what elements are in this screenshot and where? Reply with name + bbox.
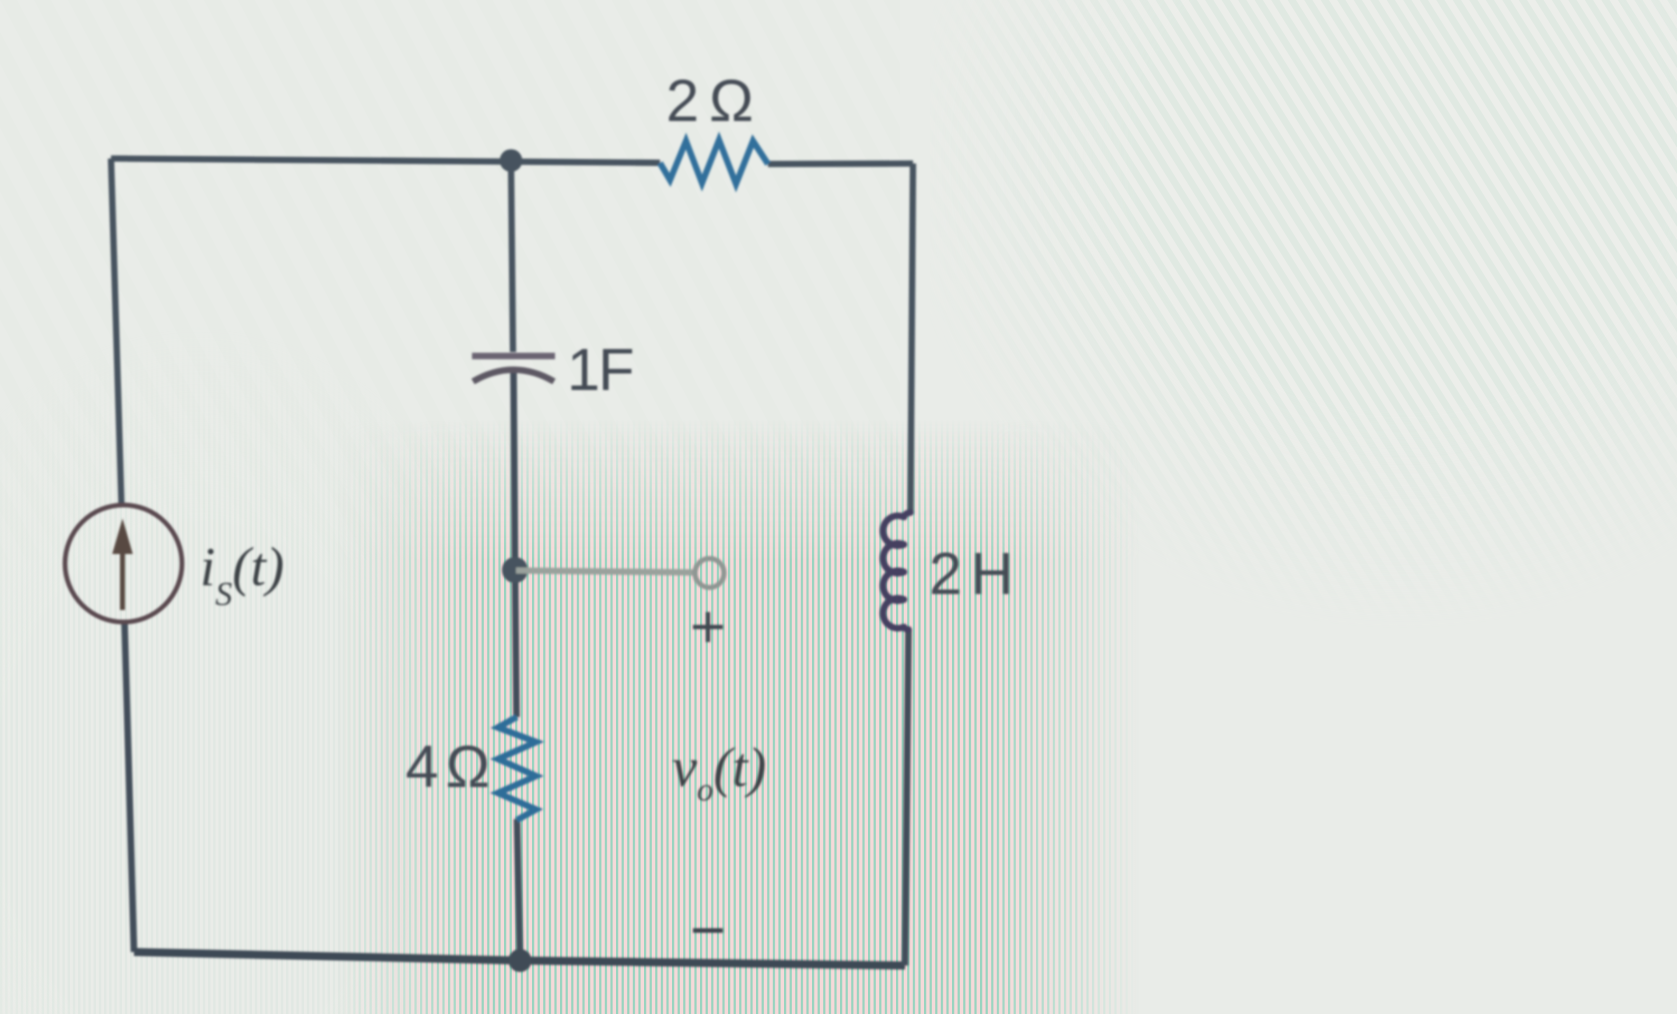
wire right xyxy=(911,164,914,515)
wire bottom xyxy=(134,952,905,966)
plus sign xyxy=(693,612,723,642)
svg-text:2H: 2H xyxy=(929,540,1014,607)
node top xyxy=(500,149,523,172)
wire middle center xyxy=(514,368,517,717)
wire right lower xyxy=(905,629,909,966)
capacitor C 1F top plate xyxy=(472,353,555,360)
wire middle lower xyxy=(517,819,520,961)
terminal vo xyxy=(695,559,724,588)
node middle xyxy=(502,557,528,583)
current source arrow xyxy=(120,550,125,610)
resistor R 4ohm xyxy=(498,717,536,820)
wire top xyxy=(111,159,913,165)
svg-text:2Ω: 2Ω xyxy=(666,67,754,134)
current source circle xyxy=(65,505,182,622)
svg-text:vo(t): vo(t) xyxy=(672,737,766,809)
resistor R 2ohm xyxy=(660,140,768,184)
svg-text:1F: 1F xyxy=(567,336,634,403)
wire probe gray xyxy=(516,571,696,573)
wire left lower xyxy=(125,621,135,952)
svg-text:4Ω: 4Ω xyxy=(406,733,491,800)
wire left xyxy=(111,159,122,507)
capacitor C 1F curved plate xyxy=(473,370,554,382)
inductor L 2H xyxy=(883,513,910,630)
wire middle upper xyxy=(511,161,513,353)
node bottom xyxy=(509,949,532,972)
minus sign xyxy=(693,928,723,932)
